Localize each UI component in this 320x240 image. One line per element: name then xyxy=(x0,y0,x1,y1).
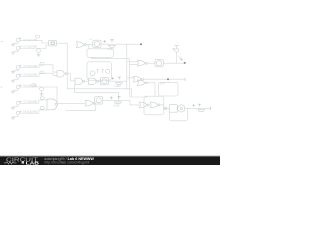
center bus box U4 top edge xyxy=(67,89,131,97)
voltage source V6 xyxy=(13,85,21,91)
voltmeter VM2 dish xyxy=(116,83,123,85)
voltage source V3 xyxy=(13,65,21,71)
relay box U3 xyxy=(87,62,111,80)
ground for CK2 xyxy=(40,94,43,96)
lamp indicator LMP4 xyxy=(95,97,103,104)
wire LMP2 to probe VM2 xyxy=(109,80,127,82)
center bus box U4 inner edge xyxy=(75,85,119,101)
bus wire down left xyxy=(56,87,58,103)
relay box U2 xyxy=(87,49,113,58)
wire V1 to gate G1 input A xyxy=(20,40,49,43)
wire LMP1 to node X (with dot) xyxy=(101,43,141,45)
CircuitLab logo LED square xyxy=(22,161,24,163)
XOR gate G9 xyxy=(85,100,95,106)
ground for V4 xyxy=(11,80,14,82)
bubble on wire xyxy=(164,107,166,109)
relay coil U3a xyxy=(90,71,95,76)
XOR gate G6 xyxy=(137,60,147,66)
power source V5 xyxy=(173,46,179,64)
meter M1 coil xyxy=(178,105,185,112)
ground for V1 xyxy=(11,44,14,46)
wire V2 to gate G1 input B xyxy=(20,45,49,49)
wire G5b to lamp LMP2 xyxy=(98,80,100,82)
lamp indicator LMP1 xyxy=(93,40,101,47)
svg-text:0.00V: 0.00V xyxy=(115,85,122,88)
svg-text:http://circuitlab.com/c/4bqp2d: http://circuitlab.com/c/4bqp2dt xyxy=(44,161,89,165)
voltage source V1 xyxy=(13,38,21,44)
wire G7 out down to box D xyxy=(147,83,155,96)
pin end tick xyxy=(184,78,186,81)
wire branch down to box U2 xyxy=(88,45,90,49)
wire LMP4 to probe VM3 xyxy=(103,101,139,105)
junction dot rail xyxy=(184,62,186,64)
node label left margin B xyxy=(1,86,2,88)
wire node X down long bus xyxy=(126,44,128,89)
ground for V2 xyxy=(11,53,14,55)
wire G6 to lamp LMP3 xyxy=(147,62,155,64)
pin label box C xyxy=(40,63,44,66)
wire V6 to bus xyxy=(20,86,57,88)
CircuitLab logo resistor zigzag xyxy=(4,162,17,164)
box U5 right xyxy=(159,82,179,96)
footer bar xyxy=(0,156,220,165)
wire V4 to gate G2 input B xyxy=(20,73,57,76)
wire bus to gate G9 xyxy=(57,102,85,104)
NAND gate G3 xyxy=(47,99,58,110)
wire U1 output to bus xyxy=(57,42,68,44)
ground for V6 xyxy=(11,91,14,93)
NAND gate G5 xyxy=(75,78,85,84)
voltmeter probe VM4 xyxy=(193,104,202,106)
wire bus to gate G6 input A xyxy=(127,61,137,63)
svg-text:0.00V: 0.00V xyxy=(114,105,121,108)
voltage source V8 xyxy=(13,111,21,117)
probe marks P5 xyxy=(181,58,183,60)
relay coil U3c xyxy=(106,69,110,73)
latch U1 xyxy=(49,40,57,46)
clock source CK2 xyxy=(40,87,44,93)
wire bus to gate G8 input A xyxy=(127,77,134,79)
voltmeter probe VM2 xyxy=(112,77,121,79)
node label left margin A xyxy=(1,41,3,43)
pin label box D xyxy=(40,71,44,74)
junction U1 out / bus V xyxy=(66,43,68,89)
wire G4 out to lamp LMP1 xyxy=(87,44,93,46)
pin label box E xyxy=(32,84,36,87)
wire V8 to gate G3 input B xyxy=(20,110,47,113)
wire V3 to gate G2 input A xyxy=(20,65,57,72)
voltage source V2 xyxy=(13,46,21,52)
XOR gate G4 top center xyxy=(76,42,86,48)
svg-text:V2 SQUARE: V2 SQUARE xyxy=(23,46,37,49)
junction dot node X xyxy=(140,43,142,45)
pin label box B xyxy=(40,107,44,110)
wire LMP3 to rail node xyxy=(163,62,186,64)
box U6 bottom right xyxy=(144,96,164,115)
ground for V8 xyxy=(11,117,14,119)
wire G8 output xyxy=(143,78,185,80)
NAND gate G5b xyxy=(89,78,99,84)
XOR gate G7 mid xyxy=(137,80,147,86)
NAND gate G2 xyxy=(57,71,67,77)
XOR gate G8 xyxy=(133,76,143,82)
clock source CK1 xyxy=(37,49,41,54)
junction dot G8 out xyxy=(167,78,169,80)
feedback loop wire M1 xyxy=(170,108,188,120)
wire G2 output to gate G5 xyxy=(67,74,75,81)
svg-text:OUT: OUT xyxy=(160,83,165,85)
lamp indicator LMP2 xyxy=(100,78,108,85)
pin label box A xyxy=(40,97,44,100)
ground for CK1 xyxy=(37,54,40,56)
feedback wire xyxy=(66,105,96,111)
XOR gate G11 xyxy=(150,102,160,108)
svg-text:LAB: LAB xyxy=(26,160,40,165)
voltmeter VM3 dish xyxy=(115,102,122,104)
voltage source V4 xyxy=(13,74,21,80)
voltmeter VM1 dish xyxy=(109,45,116,47)
voltmeter VM4 dish xyxy=(198,110,205,112)
voltmeter probe VM3 xyxy=(110,97,120,99)
wire M1 output xyxy=(185,107,211,109)
relay contacts U3b xyxy=(97,69,104,72)
XOR gate G10 xyxy=(139,102,149,108)
wire G5 to G5b xyxy=(85,80,89,82)
voltage source V7 xyxy=(13,101,21,107)
wire V7 to gate G3 input A xyxy=(20,100,47,103)
wire G11 to meter M1 xyxy=(160,105,169,109)
ground for V7 xyxy=(11,107,14,109)
pin label box Q1 xyxy=(36,35,40,38)
pin end tick M1 out xyxy=(210,107,212,110)
meter M1 box xyxy=(169,105,177,113)
wire box U2 pin to bus xyxy=(92,57,148,97)
lamp indicator LMP3 xyxy=(155,60,163,67)
ground for V3 xyxy=(11,72,14,74)
voltmeter probe VM1 xyxy=(104,40,114,43)
wire bus to gate G6 input B xyxy=(130,64,138,66)
